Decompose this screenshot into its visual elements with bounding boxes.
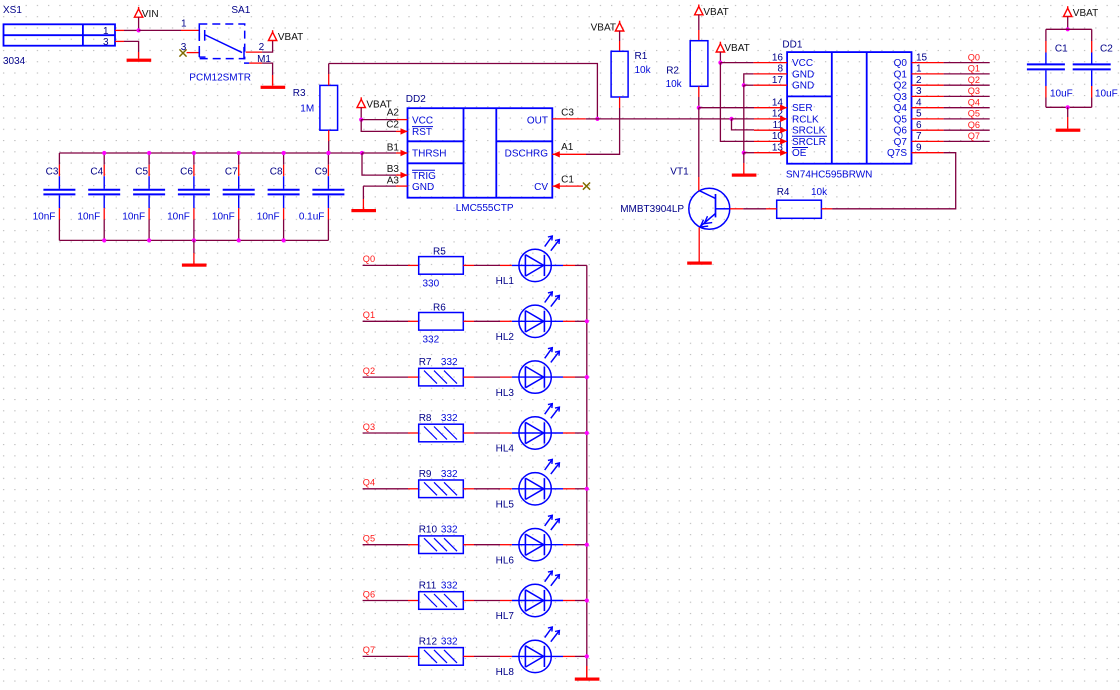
wire DD1 GND8 run (744, 74, 754, 85)
DD1 pin name RCLK (792, 114, 819, 125)
label VBAT at DD1 (724, 43, 749, 54)
junction THRSH branch (360, 151, 364, 155)
power flag VBAT at R1 (615, 21, 623, 52)
R8 left pin (408, 432, 419, 434)
net label C1 (561, 175, 574, 186)
LED HL2 body (512, 292, 563, 338)
capacitor C9 (312, 153, 344, 240)
R7 left pin (408, 376, 419, 378)
svg-text:DSCHRG: DSCHRG (505, 149, 549, 160)
svg-text:Q0: Q0 (968, 52, 980, 62)
wire R1 bottom crossing to DSCHRG (619, 108, 621, 119)
junction cap C7 bottom bus (237, 238, 241, 242)
junction bus row 6 (585, 543, 589, 547)
wire Q6 to R11 (363, 600, 408, 602)
DD1 pin name SER (792, 103, 813, 114)
junction bus row 8 (585, 654, 589, 658)
svg-text:6: 6 (916, 120, 922, 131)
DD2 pin RST wire (396, 128, 408, 134)
capacitor C5 refdes (135, 167, 148, 178)
svg-text:SA1: SA1 (231, 5, 250, 16)
resistor R1 body (611, 51, 628, 97)
svg-text:Q3: Q3 (894, 92, 908, 103)
LED HL6 body (512, 515, 563, 561)
svg-text:332: 332 (441, 357, 458, 368)
wire XS1.3 to ground (124, 41, 139, 52)
resistor R9 refdes (419, 469, 432, 480)
switch SA1 pin3 contact (199, 49, 205, 57)
svg-text:10nF: 10nF (33, 212, 56, 223)
R10 right pin (463, 544, 474, 546)
switch SA1 pin1 contact (199, 26, 204, 40)
wire HL7 to bus (575, 600, 587, 602)
wire LED cathode bus (586, 265, 588, 666)
wire HL2 to bus (575, 320, 587, 322)
LED HL2 refdes (496, 332, 515, 343)
svg-text:VBAT: VBAT (591, 23, 616, 34)
svg-text:HL5: HL5 (496, 500, 515, 511)
DD1 value SN74HC595BRWN (786, 170, 873, 181)
DD1 pin name Q6 (894, 126, 908, 137)
wire THRSH branch down to TRIG (362, 153, 396, 175)
label VBAT at C1C2 (1073, 8, 1098, 19)
resistor R1 bottom pin (619, 97, 621, 108)
DD1 right pin number 9 (916, 143, 922, 154)
timer DD2 refdes (406, 94, 426, 105)
resistor R3 value 1M (300, 104, 314, 115)
svg-text:5: 5 (916, 109, 922, 120)
svg-text:Q2: Q2 (968, 75, 980, 85)
wire GND17 tap to pin (744, 84, 754, 86)
wire HL4 to bus (575, 432, 587, 434)
capacitor C8 refdes (270, 167, 283, 178)
resistor R7 refdes (419, 357, 432, 368)
svg-text:TRIG: TRIG (412, 171, 436, 182)
resistor R3 bottom pin (328, 130, 330, 141)
DD1 pin 8 stub (753, 73, 787, 75)
net label Q1 at row (363, 310, 375, 320)
svg-text:2: 2 (916, 75, 922, 86)
DD1 pin name Q0 (894, 58, 908, 69)
junction DD1 VCC node (718, 61, 722, 65)
DD1 pin 12 stub with arrow (754, 116, 787, 122)
connector XS1 pin 3 number (103, 37, 109, 48)
svg-text:XS1: XS1 (3, 5, 22, 16)
transistor VT1 refdes (670, 167, 689, 178)
svg-text:THRSH: THRSH (412, 149, 446, 160)
resistor R11 refdes (419, 581, 437, 592)
R7 right pin (463, 376, 474, 378)
svg-text:C6: C6 (180, 167, 193, 178)
LED HL4 right pin (563, 432, 575, 434)
junction VIN node (137, 28, 141, 32)
LED HL4 left pin (500, 432, 512, 434)
DD1 pin 4 stub (912, 107, 944, 109)
net label Q2 at DD1 (968, 75, 980, 85)
wire OUT node to DD2.OUT (586, 118, 598, 120)
DD1 left pin number 13 (772, 143, 784, 154)
R9 right pin (463, 488, 474, 490)
junction cap C4 bottom bus (102, 238, 106, 242)
svg-text:10nF: 10nF (257, 212, 280, 223)
wire Q2 to R7 (363, 376, 408, 378)
DD2 value LMC555CTP (456, 203, 514, 214)
svg-text:OE: OE (792, 148, 807, 159)
wire HL1 to bus (575, 264, 587, 266)
wire HL3 to bus (575, 376, 587, 378)
net label Q1 at DD1 (968, 64, 980, 74)
DD1 left pin number 8 (777, 64, 783, 75)
svg-text:332: 332 (441, 636, 458, 647)
capacitor C1 (1027, 29, 1065, 107)
svg-text:Q7: Q7 (894, 137, 908, 148)
LED HL6 left pin (500, 544, 512, 546)
svg-text:B3: B3 (387, 164, 400, 175)
resistor R4 left pin (766, 208, 777, 210)
junction cap C5 bottom bus (147, 238, 151, 242)
capacitor C4 (88, 153, 120, 240)
LED HL2 right pin (563, 320, 575, 322)
resistor R10 body (hatched) (419, 536, 464, 554)
wire net Q5 (944, 118, 990, 120)
svg-text:RST: RST (412, 127, 432, 138)
LED HL1 refdes (496, 276, 515, 287)
wire net Q4 (944, 107, 990, 109)
DD2 pin name CV (534, 182, 548, 193)
svg-text:HL2: HL2 (496, 332, 515, 343)
LED HL6 right pin (563, 544, 575, 546)
wire VBAT flag to VCC node (719, 52, 721, 63)
wire SA1.M1 to ground (262, 63, 273, 75)
DD1 pin name GND (8) (792, 69, 814, 80)
capacitor C7 (223, 153, 255, 240)
svg-text:R2: R2 (666, 66, 679, 77)
LED HL5 right pin (563, 488, 575, 490)
svg-text:R1: R1 (635, 51, 648, 62)
resistor R5 body (419, 257, 464, 275)
resistor R3 body (320, 85, 338, 130)
wire cap bank bottom bus (GND) (59, 239, 328, 241)
capacitor C1 value 10uF (1050, 89, 1073, 100)
net label C3 (561, 108, 574, 119)
DD1 left pin number 16 (772, 52, 784, 63)
wire VIN node to SA1.1 (139, 29, 181, 31)
capacitor C6 value 10nF (167, 212, 190, 223)
junction R3/C9 on THRSH bus (326, 151, 330, 155)
svg-text:SRCLK: SRCLK (792, 126, 826, 137)
net label Q2 at row (363, 366, 375, 376)
svg-text:LMC555CTP: LMC555CTP (456, 203, 514, 214)
ground under cap bank (182, 261, 207, 267)
resistor R1 value 10k (635, 65, 652, 76)
DD1 right pin number 6 (916, 120, 922, 131)
svg-text:Q0: Q0 (363, 254, 375, 264)
svg-text:OUT: OUT (527, 115, 548, 126)
svg-text:Q2: Q2 (894, 81, 908, 92)
DD1 right pin number 15 (916, 52, 928, 63)
resistor R8 value 332 (441, 413, 458, 424)
svg-text:332: 332 (441, 525, 458, 536)
svg-text:Q7S: Q7S (887, 148, 907, 159)
label VBAT at R1 (591, 23, 616, 34)
switch SA1 pin 1 number (181, 19, 187, 30)
switch SA1 value PCM12SMTR (189, 73, 251, 84)
wire net Q6 (944, 129, 990, 131)
capacitor C8 (268, 153, 300, 240)
resistor R2 body (690, 41, 708, 87)
svg-text:9: 9 (916, 143, 922, 154)
DD2 pin name DSCHRG (505, 149, 549, 160)
LED HL6 refdes (496, 555, 515, 566)
resistor R3 refdes (293, 88, 306, 99)
capacitor C5 value 10nF (122, 212, 145, 223)
ground under SA1 M1 (261, 75, 286, 89)
svg-text:10uF: 10uF (1050, 89, 1073, 100)
svg-text:4: 4 (916, 98, 922, 109)
DD1 right pin number 7 (916, 131, 922, 142)
junction cap C5 top bus (147, 151, 151, 155)
svg-text:VBAT: VBAT (1073, 8, 1098, 19)
LED HL1 right pin (563, 264, 575, 266)
svg-text:10nF: 10nF (122, 212, 145, 223)
wire R3 bottom to THRSH bus (328, 141, 330, 153)
svg-text:C2: C2 (1100, 44, 1113, 55)
svg-text:332: 332 (441, 413, 458, 424)
svg-text:PCM12SMTR: PCM12SMTR (189, 73, 251, 84)
DD1 pin 5 stub (912, 118, 944, 120)
svg-text:Q6: Q6 (363, 589, 375, 599)
svg-text:VCC: VCC (412, 115, 433, 126)
svg-text:HL1: HL1 (496, 276, 515, 287)
svg-text:Q1: Q1 (363, 310, 375, 320)
svg-text:Q7: Q7 (363, 645, 375, 655)
capacitor C3 (43, 153, 75, 240)
DD1 left pin number 12 (772, 109, 784, 120)
capacitor C1 refdes (1055, 44, 1068, 55)
svg-text:3034: 3034 (3, 56, 26, 67)
resistor R5 refdes (433, 246, 446, 257)
svg-text:Q1: Q1 (968, 64, 980, 74)
capacitor C4 refdes (90, 167, 103, 178)
LED HL7 right pin (563, 600, 575, 602)
svg-text:DD1: DD1 (782, 40, 802, 51)
svg-text:A3: A3 (387, 175, 400, 186)
DD1 right pin number 1 (916, 64, 922, 75)
svg-text:GND: GND (792, 81, 814, 92)
DD1 pin name Q1 (894, 69, 908, 80)
capacitor C4 value 10nF (77, 212, 100, 223)
svg-text:R4: R4 (777, 187, 790, 198)
svg-text:SN74HC595BRWN: SN74HC595BRWN (786, 170, 873, 181)
power flag VBAT at SA1 (268, 30, 276, 40)
wire Q1 to R6 (363, 320, 408, 322)
wire VBAT flag down to VCC node (360, 108, 362, 120)
svg-text:GND: GND (412, 182, 434, 193)
svg-text:1: 1 (103, 26, 109, 37)
svg-text:0.1uF: 0.1uF (299, 212, 325, 223)
svg-text:HL3: HL3 (496, 388, 515, 399)
DD1 left pin number 17 (772, 75, 784, 86)
resistor R8 refdes (419, 413, 432, 424)
wire Q4 to R9 (363, 488, 408, 490)
svg-text:Q4: Q4 (968, 98, 980, 108)
wire SA1.2 to VBAT (262, 41, 273, 53)
wire bottom bus to ground (193, 240, 195, 261)
svg-text:GND: GND (792, 69, 814, 80)
svg-text:332: 332 (441, 581, 458, 592)
wire SER tap to DD1.SER (699, 107, 754, 109)
LED HL1 body (512, 236, 563, 282)
wire SER tap down to VT1 collector (698, 108, 700, 177)
DD1 pin name Q3 (894, 92, 908, 103)
DD2 pin name OUT (527, 115, 548, 126)
junction bus row 2 (585, 319, 589, 323)
svg-text:A1: A1 (561, 142, 574, 153)
svg-text:R11: R11 (419, 581, 437, 592)
svg-text:Q6: Q6 (968, 120, 980, 130)
net label Q5 at row (363, 534, 375, 544)
svg-text:10k: 10k (811, 187, 828, 198)
svg-text:RCLK: RCLK (792, 114, 819, 125)
DD1 pin 2 stub (912, 84, 944, 86)
junction DD2 VCC node (359, 118, 363, 122)
wire R8 to HL4 (474, 432, 500, 434)
svg-text:C9: C9 (315, 167, 328, 178)
junction OUT node (595, 117, 599, 121)
svg-text:10nF: 10nF (77, 212, 100, 223)
net label A3 (387, 175, 400, 186)
LED bus lower red segment (586, 666, 588, 678)
label VBAT at DD2 (366, 99, 391, 110)
wire net Q0 (944, 62, 990, 64)
capacitor C2 (1073, 29, 1111, 107)
DD1 pin 16 stub (753, 62, 787, 64)
wire run to RCLK pin (732, 118, 755, 120)
wire C1C2 bottom bus (1046, 106, 1092, 108)
svg-text:Q5: Q5 (363, 534, 375, 544)
svg-text:VBAT: VBAT (703, 7, 728, 18)
wire OE tap to pin (744, 152, 754, 154)
junction SER tap (697, 106, 701, 110)
svg-text:A2: A2 (387, 107, 400, 118)
net label Q4 at DD1 (968, 98, 980, 108)
wire GND vertical run (743, 85, 745, 153)
net label Q6 at DD1 (968, 120, 980, 130)
svg-text:17: 17 (772, 75, 784, 86)
svg-text:VCC: VCC (792, 58, 813, 69)
junction bus row 7 (585, 598, 589, 602)
wire Q3 to R8 (363, 432, 408, 434)
label VBAT at R2 (703, 7, 728, 18)
svg-text:10k: 10k (666, 79, 683, 90)
wire R11 to HL7 (474, 600, 500, 602)
svg-text:VBAT: VBAT (278, 32, 303, 43)
DD1 pin 10 stub with arrow (754, 138, 787, 144)
LED HL5 body (512, 459, 563, 505)
resistor R12 body (hatched) (419, 648, 464, 666)
LED HL4 refdes (496, 444, 515, 455)
svg-text:VIN: VIN (142, 9, 159, 20)
junction bus row 4 (585, 431, 589, 435)
junction bus row 3 (585, 375, 589, 379)
net label Q4 at row (363, 478, 375, 488)
wire OUT node to RCLK run (597, 118, 731, 120)
svg-text:Q3: Q3 (968, 86, 980, 96)
R8 right pin (463, 432, 474, 434)
capacitor C7 refdes (225, 167, 238, 178)
DD1 pin 1 stub (912, 73, 944, 75)
DD1 left pin number 14 (772, 98, 784, 109)
junction cap C8 top bus (282, 151, 286, 155)
DD2 pin name TRIG with overline (412, 170, 436, 182)
resistor R6 value 332 (423, 335, 440, 346)
LED HL8 body (512, 627, 563, 673)
LED HL3 body (512, 348, 563, 394)
DD1 pin 17 stub (753, 84, 787, 86)
DD1 pin name Q7S (887, 148, 907, 159)
net label B3 (387, 164, 400, 175)
resistor R10 refdes (419, 525, 438, 536)
no-connect X on CV (583, 183, 590, 190)
junction cap C6 bottom bus (192, 238, 196, 242)
svg-text:7: 7 (916, 131, 922, 142)
resistor R6 body (419, 313, 464, 331)
svg-text:10k: 10k (635, 65, 652, 76)
svg-text:C1: C1 (561, 175, 574, 186)
resistor R2 value 10k (666, 79, 683, 90)
transistor VT1 value MMBT3904LP (620, 204, 684, 215)
wire branch to SRCLK (732, 119, 755, 130)
resistor R2 bottom pin (698, 86, 700, 97)
junction C1C2 top (1066, 27, 1070, 31)
wire C1C2 to ground (1067, 107, 1069, 126)
resistor R11 body (hatched) (419, 592, 464, 610)
resistor R4 refdes (777, 187, 790, 198)
svg-text:R6: R6 (433, 302, 446, 313)
DD2 pin TRIG wire (396, 172, 408, 178)
svg-text:Q5: Q5 (968, 109, 980, 119)
svg-text:330: 330 (423, 279, 440, 290)
DD1 pin name GND (17) (792, 81, 814, 92)
R5 left pin (408, 264, 419, 266)
LED HL3 left pin (500, 376, 512, 378)
svg-text:HL6: HL6 (496, 555, 515, 566)
wire net Q7 (944, 140, 990, 142)
connector XS1 pin 3 stub (115, 40, 124, 42)
svg-text:10nF: 10nF (212, 212, 235, 223)
wire GND run to ground (743, 153, 745, 172)
capacitor C6 (178, 153, 210, 240)
shift register DD1 refdes (782, 40, 802, 51)
svg-text:HL8: HL8 (496, 667, 515, 678)
net label C2 (386, 120, 399, 131)
svg-text:1: 1 (181, 19, 187, 30)
wire R7 to HL3 (474, 376, 500, 378)
resistor R4 right pin (821, 208, 832, 210)
wire R6 to HL2 (474, 320, 500, 322)
DD1 pin 6 stub (912, 129, 944, 131)
net label Q3 at DD1 (968, 86, 980, 96)
resistor R12 value 332 (441, 636, 458, 647)
DD1 left pin number 11 (773, 120, 784, 131)
label VBAT at SA1 (278, 32, 303, 43)
DD2 pin THRSH wire (362, 150, 408, 156)
resistor R8 body (hatched) (419, 424, 464, 442)
switch SA1 dashed body (199, 24, 244, 59)
net label Q6 at row (363, 589, 375, 599)
LED HL3 refdes (496, 388, 515, 399)
DD1 right pin number 2 (916, 75, 922, 86)
